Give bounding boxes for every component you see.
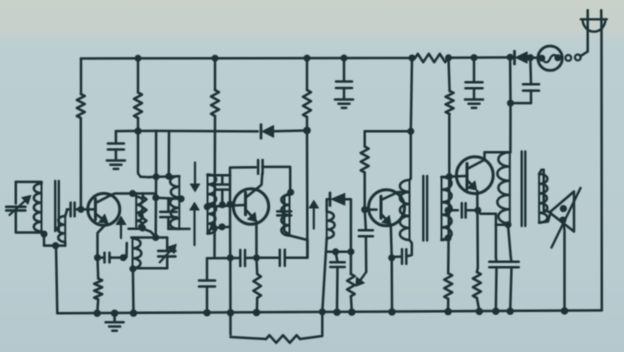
wire bus to R3	[214, 58, 217, 90]
wire chain cap2 left	[257, 257, 280, 260]
wire oscillator tank bottom	[133, 267, 167, 270]
wire speaker return to bus	[563, 220, 565, 311]
switch S1 left contact	[538, 55, 545, 62]
wire tank to ground bus	[132, 269, 135, 313]
wire collector top rail	[133, 194, 156, 199]
earphone dome	[583, 19, 606, 31]
inductor T1 secondary winding	[208, 174, 217, 233]
capacitor C12 stem	[336, 252, 338, 262]
transistor Q3 circle	[369, 190, 405, 226]
capacitor C15 (feedback)	[461, 203, 464, 217]
resistor R6 (Q1 emitter)	[94, 279, 102, 300]
capacitor C17 (bus decoupling)	[336, 80, 352, 83]
wire top supply bus (left section)	[81, 57, 415, 60]
wire T4 bottom to C20	[508, 225, 512, 262]
wire AGC drop to T1 top	[155, 131, 158, 177]
potentiometer R9 (volume)	[347, 274, 355, 296]
variable capacitor VC1 arrow	[10, 201, 25, 215]
wire volume to pot	[350, 252, 353, 274]
potentiometer R9 wiper arrow	[360, 272, 366, 280]
transistor Q4 emitter with arrow	[468, 181, 471, 185]
resistor R4 (IF stage feed)	[303, 90, 311, 117]
node tank bottom junction	[129, 265, 136, 272]
wire C16 to bus	[495, 267, 498, 311]
node bus B2	[111, 310, 118, 317]
ground main (below bus)	[106, 321, 124, 324]
switch S1 filament curve	[542, 55, 558, 62]
diode D2 (detector, pointing left)	[331, 193, 345, 205]
node Q1 base junction	[77, 206, 84, 213]
wire volume node link	[328, 250, 351, 253]
node bus B13	[507, 308, 514, 315]
wire bus to C17	[343, 58, 346, 81]
earphone right prong / battery line	[600, 10, 603, 26]
capacitor C2 stem (AGC bypass)	[115, 131, 118, 143]
wire combo sweep to tank	[143, 229, 156, 237]
wire C12 to bus	[336, 267, 339, 312]
node chain emitter junction	[253, 254, 260, 261]
transistor Q3 base bar	[380, 196, 383, 218]
resistor R13 (Q4 emitter)	[473, 272, 481, 298]
wire C20 to bus	[510, 267, 511, 311]
wire C2 to ground	[115, 150, 118, 160]
node bus B10	[444, 308, 451, 315]
wire chain cap1 to emitter node	[245, 257, 257, 260]
wire C18 to ground	[473, 88, 476, 99]
node antenna coil bottom	[41, 231, 48, 238]
inductor T1 primary winding	[170, 176, 179, 229]
wire C7 to T2 top	[263, 167, 291, 192]
wire T4 primary bottom	[508, 224, 510, 225]
T2 slug arrow (up)	[313, 208, 315, 229]
node bus B5	[227, 309, 234, 316]
wire Q2 emitter down	[255, 222, 258, 258]
wire C19 return	[511, 91, 532, 104]
wire bus to R11	[449, 58, 450, 91]
wire R1 to Q1 base	[80, 118, 83, 209]
wire D3 to switch	[527, 56, 538, 59]
speaker triangle	[550, 192, 575, 232]
capacitor C12 (detector filter)	[330, 261, 344, 264]
wire antenna loop top	[16, 182, 42, 184]
wire C13 to Q3 base	[365, 210, 366, 231]
node T2 return at bus	[319, 308, 326, 315]
transistor Q4 base bar	[466, 164, 469, 190]
node C15 emitter junction	[474, 207, 481, 214]
node IF2 junction	[303, 127, 311, 135]
resistor R11 (Q4 bias upper)	[446, 91, 454, 114]
transistor Q2 circle	[233, 189, 268, 224]
resistor R10 (Q3 bias)	[361, 147, 369, 173]
diode D3 cathode bar (polarity guard)	[513, 51, 516, 64]
diode D3 (pointing left)	[516, 52, 528, 63]
wire bias drop to return	[448, 177, 449, 274]
node T1 tap left	[152, 194, 159, 201]
wire T1 top rail	[150, 175, 179, 178]
inductor T2 primary winding	[281, 195, 289, 236]
speaker diagonal stroke	[552, 188, 581, 248]
transistor Q3 collector	[382, 192, 409, 200]
node C4 right junction	[120, 254, 127, 261]
T4 core bar left	[521, 152, 523, 227]
wire R12 to bus	[447, 299, 450, 311]
inductor T3 primary winding	[400, 180, 410, 240]
wire bus to R2	[137, 58, 140, 92]
capacitor C10 corner stem	[206, 258, 209, 280]
wire T2 secondary bottom to bus	[322, 238, 326, 312]
wire AGC line middle	[156, 130, 258, 133]
T1 slug arrow upper (down)	[194, 163, 196, 185]
node T1 primary tap	[178, 195, 185, 202]
resistor R3 (Q2 bias feed)	[211, 90, 219, 116]
diode D1 cathode bar (AGC)	[260, 125, 263, 139]
capacitor C5 stem (T1 tuning)	[167, 198, 170, 212]
capacitor C5 (T1 tuning)	[160, 211, 176, 214]
capacitor C15 left wire	[448, 209, 458, 212]
node bus junction A8	[507, 54, 514, 61]
node T1 top junction	[165, 173, 172, 180]
wire L2 top stub	[135, 194, 138, 197]
node bus junction A3	[304, 55, 311, 62]
node C15 left junction	[445, 207, 452, 214]
wire C13 to wiper	[365, 236, 368, 272]
resistor R2 (Q1 bias lower)	[134, 93, 142, 119]
wire secondary bottom	[64, 242, 67, 246]
switch S1 right contact	[554, 54, 561, 61]
node bus B1	[94, 310, 101, 317]
capacitor C16 (output filter 1)	[489, 261, 503, 264]
wire C5 bottom rail	[168, 228, 189, 231]
capacitor C6 stem bottom	[221, 190, 224, 205]
wire R2 down to AGC node	[137, 118, 140, 131]
oscillator feedback arrow (up)	[120, 225, 122, 239]
capacitor C20 (output filter 2)	[504, 261, 518, 264]
wire top supply bus (right section)	[448, 56, 514, 59]
wire T3 secondary bottom elbow	[442, 238, 449, 240]
wire T1 top rail to C6	[208, 174, 231, 177]
node bus B3	[130, 309, 137, 316]
capacitor C10 (Q2 bypass)	[199, 279, 215, 282]
transistor Q3 emitter with arrow	[382, 215, 386, 219]
capacitor C11 stem bottom	[284, 215, 289, 234]
capacitor C18 (bus decoupling 2)	[466, 81, 483, 84]
wire C14 to T3 bottom riser	[406, 240, 412, 256]
node tank top junction	[152, 234, 159, 241]
wire C16 riser	[495, 258, 498, 262]
inductor L1 secondary	[57, 216, 65, 242]
node bus B4	[203, 309, 210, 316]
inductor T4 primary winding	[497, 152, 509, 223]
node bus junction A1	[135, 55, 142, 62]
wire emitter node to R6	[96, 258, 99, 279]
wire oscillator tank top	[131, 236, 167, 239]
wire Q1 emitter down	[98, 224, 107, 257]
wire T2 top to coil	[290, 192, 291, 194]
capacitor C9 (chain cap 2)	[279, 250, 282, 266]
transistor Q1 circle	[88, 193, 120, 225]
wire collector branch down	[478, 210, 496, 257]
node bus B12	[492, 308, 499, 315]
wire branch link to T4 bottom	[496, 223, 508, 226]
inductor T2 secondary winding	[327, 212, 335, 239]
variable capacitor VC1 plates (tuning)	[6, 206, 25, 209]
T1 slug arrow lower (up)	[193, 210, 195, 245]
capacitor C4 (emitter bypass)	[103, 253, 106, 263]
resistor R12 (T3 return)	[444, 273, 452, 299]
wire emitter chain	[98, 256, 104, 259]
wire supply to T4 primary	[509, 57, 512, 152]
node bus junction A9	[527, 54, 534, 61]
wire C3 to Q1 base	[75, 208, 95, 211]
node bus B8	[348, 308, 355, 315]
node volume top left	[332, 248, 339, 255]
inductor L3 (oscillator coil)	[133, 238, 142, 268]
wire Q3 emitter down	[390, 226, 393, 258]
earphone bar	[581, 18, 607, 20]
capacitor C19 (supply filter)	[523, 83, 539, 86]
wire bias rail Q3	[363, 131, 366, 146]
node T3 return junction	[445, 235, 452, 242]
transistor Q2 emitter with arrow	[247, 211, 252, 216]
node link dot 1	[210, 224, 217, 231]
wire T1 secondary to Q2 base	[207, 205, 244, 207]
capacitor C6 (base coupling)	[216, 183, 229, 186]
transistor Q1 collector	[97, 194, 133, 203]
wire T3 secondary top to Q4 base	[442, 176, 466, 177]
diode D2 cathode bar (detector)	[329, 193, 332, 206]
wire antenna bottom return	[44, 234, 65, 246]
jack contact circle 2	[575, 55, 581, 61]
node bus B14	[561, 307, 568, 314]
resistor R14 (Q2 emitter)	[253, 274, 261, 298]
node bus drop junction	[407, 128, 414, 135]
wire R14 to bus	[256, 298, 259, 313]
wire R4 to AGC node	[306, 117, 309, 130]
ground below C17	[335, 98, 353, 101]
wire bias top rail to bus drop	[365, 130, 411, 133]
node T3 base rail junction	[446, 173, 453, 180]
wire Q2 bias drop	[229, 204, 232, 257]
wire main ground stub	[113, 313, 116, 322]
node Q2 base riser junction	[227, 201, 234, 208]
resistor R5 (series decoupling, horizontal in bus)	[415, 54, 448, 62]
wire T1 tap rail	[156, 198, 181, 199]
node Q1 collector junction	[129, 190, 136, 197]
wire tank right lower	[166, 256, 169, 268]
resistor R8 (feedback, horizontal)	[266, 335, 300, 343]
node bus B7	[333, 309, 340, 316]
diode D1 (AGC, pointing left)	[262, 126, 273, 138]
wire R3 long drop	[213, 116, 216, 258]
wire antenna loop left lower	[16, 210, 44, 234]
ground below C18	[465, 98, 483, 101]
wire jack to earphone	[580, 10, 587, 56]
wire bus to C18	[473, 58, 476, 83]
ferrite core bar left	[54, 181, 56, 231]
wire sub-bus left	[231, 337, 267, 339]
node antenna return junction	[52, 242, 59, 249]
wire Q3 base	[365, 208, 377, 211]
node T1 rail left junction	[153, 173, 160, 180]
transistor Q4 collector	[468, 160, 485, 169]
transistor Q4 circle	[456, 157, 493, 194]
wire combo bottom rail	[129, 227, 143, 230]
inductor L2 (osc feedback coil)	[136, 197, 142, 229]
wire T1 secondary bottom link	[208, 227, 231, 234]
wire tank right upper	[166, 238, 169, 251]
wire collector feed from supply	[485, 152, 511, 160]
wire C4 to oscillator coil tap	[111, 243, 127, 258]
T3 core bar right	[426, 176, 428, 241]
T4 core bar right	[524, 152, 526, 227]
capacitor C6 stem top	[221, 176, 224, 185]
wire R13 to bus	[477, 298, 479, 311]
wire T1 left drop to tank	[154, 177, 157, 238]
ground below C2	[107, 159, 125, 162]
T3 core bar left	[422, 176, 424, 241]
wire bus to R4	[306, 58, 309, 90]
capacitor C11 stem top	[284, 192, 291, 211]
capacitor C14 (emitter bypass)	[401, 249, 404, 263]
inductor T3 secondary winding	[442, 177, 452, 240]
node supply filter junction	[507, 100, 514, 107]
node Q1 emitter junction	[94, 254, 101, 261]
inductor T4 secondary winding	[539, 174, 547, 223]
speaker terminal upper	[560, 205, 567, 212]
node bus junction A5	[409, 55, 416, 62]
wire Q3 emitter to bus	[390, 258, 393, 312]
transistor Q1 emitter with arrow	[97, 215, 102, 219]
wire Q4 emitter down	[476, 191, 479, 272]
wire Q2 bias to sub-bus	[229, 258, 232, 335]
wire AGC line	[116, 130, 156, 133]
wire emitter to C14	[392, 255, 401, 258]
node bus junction A2	[212, 55, 219, 62]
wire C10 to ground bus	[206, 287, 209, 314]
capacitor C11 (T2 tank)	[277, 210, 291, 213]
node combo bottom junction	[139, 225, 146, 232]
wire AGC diode to IF2 node	[274, 129, 307, 132]
wire chain to R14	[255, 258, 258, 274]
wire secondary top to C3	[65, 209, 70, 216]
wire R7 top stub	[142, 194, 145, 197]
speaker terminal lower	[559, 217, 566, 224]
node bus B9	[388, 308, 395, 315]
wire R6 to ground bus	[97, 299, 98, 313]
capacitor C3 (antenna coupling)	[69, 203, 72, 217]
node T4 bottom junction	[505, 221, 512, 228]
capacitor C8 (chain cap 1)	[239, 250, 242, 266]
resistor R1 (Q1 base bias)	[77, 94, 85, 118]
wire T4 secondary bottom to speaker	[539, 212, 551, 222]
wire detector to volume node	[345, 199, 351, 252]
node chain left	[227, 254, 234, 261]
wire right edge down	[600, 26, 603, 310]
node bus junction A4	[341, 55, 348, 62]
wire pot to bus	[350, 296, 353, 311]
wire bottom ground bus	[57, 310, 602, 313]
resistor R7 (parallel with L2)	[139, 197, 146, 229]
wire bus drop upper	[411, 58, 412, 131]
wire chain cap1 left	[207, 257, 240, 260]
wire R10 to base	[363, 173, 366, 210]
transistor Q2 collector	[247, 174, 263, 198]
node T1 secondary tap	[204, 203, 211, 210]
variable capacitor VC2 plates (oscillator)	[158, 250, 175, 253]
transistor Q2 base bar	[244, 193, 247, 215]
wire IF2 node long drop	[306, 130, 309, 257]
wire AGC riser at T1	[168, 131, 171, 176]
wire T4 secondary top to speaker	[539, 170, 551, 213]
wire chain cap2 to T2 bottom riser	[285, 236, 308, 258]
capacitor C19 stem top	[529, 58, 532, 85]
node T2 primary top	[287, 189, 294, 196]
wire bus corner down-left	[80, 59, 83, 95]
wire R11 long drop	[448, 114, 451, 177]
variable capacitor VC2 arrow	[160, 250, 171, 262]
wire C17 to ground	[343, 88, 346, 99]
capacitor C7 (neutralizing)	[257, 160, 260, 174]
ferrite core bar right	[58, 181, 60, 231]
wire R2 node down to T1 top	[138, 131, 150, 177]
wire sub-bus right	[300, 312, 322, 339]
wire antenna loop left upper	[15, 182, 18, 204]
transistor Q1 base bar	[94, 199, 97, 220]
capacitor C13 (AF coupling)	[359, 229, 373, 232]
inductor L1 primary (ferrite antenna coil)	[34, 184, 42, 232]
node volume top right	[347, 248, 354, 255]
wire bus drop to T3 primary	[410, 131, 411, 180]
node bus B6	[253, 309, 260, 316]
node bus junction A6	[445, 54, 452, 61]
node Q3 emitter junction	[388, 254, 395, 261]
on-off switch S1 circle	[538, 46, 562, 70]
wire base riser to C7	[230, 167, 256, 204]
node Q3 base junction	[361, 206, 368, 213]
node bus B11	[476, 308, 483, 315]
capacitor C2 (AGC bypass)	[108, 142, 124, 145]
wire antenna return to ground bus	[56, 246, 57, 314]
jack contact circle 1	[565, 55, 571, 61]
wire T2 secondary to detector	[327, 199, 329, 212]
node bus junction A7	[471, 54, 478, 61]
node link dot 2	[219, 223, 226, 230]
node AGC junction at R2	[134, 128, 141, 135]
wire C15 to emitter line	[466, 209, 478, 212]
node C6 base junction	[219, 201, 226, 208]
wire C5 bottom stub	[167, 217, 170, 229]
